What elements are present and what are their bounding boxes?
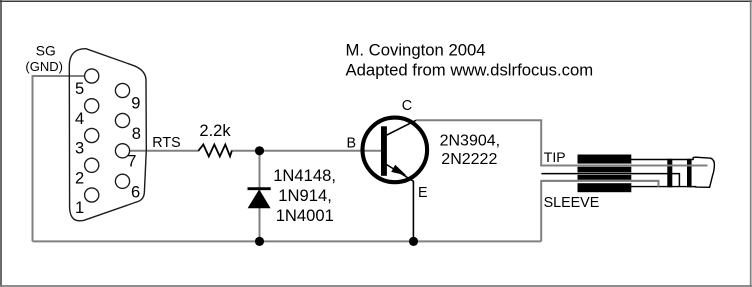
svg-text:1N4001: 1N4001 <box>276 206 334 225</box>
pin 3 <box>85 128 99 142</box>
pin 9 <box>115 83 129 97</box>
svg-text:E: E <box>418 185 428 201</box>
svg-text:1N914,: 1N914, <box>278 186 332 205</box>
svg-text:8: 8 <box>132 125 141 143</box>
diode D1 (anode triangle) <box>249 190 270 208</box>
plug insulator band 1 <box>667 159 672 188</box>
pin 4 <box>85 99 99 113</box>
svg-text:2N3904,: 2N3904, <box>440 132 501 149</box>
svg-text:SG: SG <box>36 44 56 59</box>
svg-text:2.2k: 2.2k <box>199 122 231 140</box>
svg-text:1N4148,: 1N4148, <box>273 166 336 185</box>
transistor emitter diagonal <box>387 165 414 182</box>
svg-text:5: 5 <box>75 80 84 98</box>
transistor emitter arrowhead <box>391 165 406 176</box>
pin 2 <box>85 158 99 172</box>
svg-text:9: 9 <box>131 95 140 113</box>
node: junction diode/ground rail <box>255 237 264 246</box>
plug barrel bottom outline <box>631 186 696 188</box>
wire: collector top rail <box>416 120 541 165</box>
svg-text:(GND): (GND) <box>25 59 63 74</box>
wire: diode vertical <box>259 151 261 242</box>
wire: SLEEVE wire <box>541 181 658 242</box>
wire: emitter vertical <box>412 181 414 242</box>
pin 6 <box>115 174 129 188</box>
wire: TIP wire to plug tip <box>540 165 707 167</box>
DB9 connector shell <box>69 49 146 221</box>
wire: bottom ground rail <box>33 240 542 242</box>
transistor base bar <box>381 126 387 176</box>
pin 8 <box>115 113 129 127</box>
svg-text:Adapted from www.dslrfocus.com: Adapted from www.dslrfocus.com <box>346 61 594 80</box>
diode D1 (cathode bar) <box>248 187 271 190</box>
node: junction emitter/ground rail <box>409 237 418 246</box>
node: junction resistor/diode <box>255 146 264 155</box>
svg-text:B: B <box>347 135 357 151</box>
pin 5 <box>85 69 99 83</box>
svg-text:C: C <box>402 98 412 114</box>
wire: RTS from pin7 to resistor <box>130 150 200 152</box>
wire: TIP wire over plug <box>540 165 707 167</box>
svg-text:7: 7 <box>127 153 136 171</box>
wire: ring stub (black) <box>541 174 679 187</box>
plug tip <box>692 157 715 187</box>
border frame <box>0 0 752 2</box>
wire: resistor to transistor base <box>231 150 382 152</box>
svg-text:2: 2 <box>75 169 84 187</box>
svg-text:3: 3 <box>75 140 84 158</box>
svg-text:TIP: TIP <box>544 149 566 165</box>
svg-text:2N2222: 2N2222 <box>441 151 497 168</box>
svg-text:1: 1 <box>75 199 84 217</box>
pin 1 <box>85 188 99 202</box>
transistor Q1 circle <box>363 118 428 183</box>
transistor collector diagonal <box>387 120 417 135</box>
wire: sleeve line over handle <box>541 181 658 187</box>
resistor R 2.2k <box>198 145 231 157</box>
svg-text:M. Covington 2004: M. Covington 2004 <box>346 41 486 60</box>
pin 7 <box>115 144 129 158</box>
plug handle block (black with channels) <box>578 155 632 193</box>
svg-text:6: 6 <box>131 184 140 202</box>
plug barrel top outline <box>631 159 693 161</box>
svg-text:RTS: RTS <box>152 135 180 151</box>
svg-text:SLEEVE: SLEEVE <box>544 195 600 211</box>
plug insulator band 2 <box>687 159 692 188</box>
svg-text:4: 4 <box>75 110 84 128</box>
wire: SG ground wire from pin5 left <box>33 76 85 241</box>
